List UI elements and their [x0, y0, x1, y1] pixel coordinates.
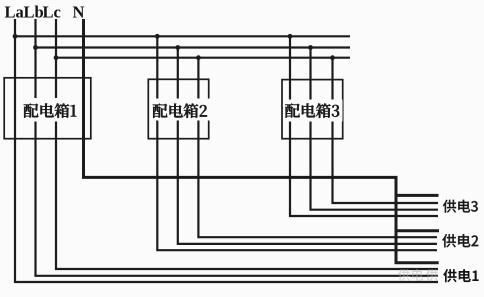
junction: bus C tap for box2	[196, 55, 201, 60]
svg-text:Lc: Lc	[43, 3, 61, 22]
svg-text:Lb: Lb	[24, 3, 44, 22]
wire: box2 tap phase A down to 供电2 run	[157, 36, 437, 250]
wire: box3 tap phase C down to 供电3 run	[333, 58, 439, 203]
distribution box 2 (配电箱2)	[148, 79, 208, 138]
bus: phase A horizontal bus from La	[15, 35, 350, 37]
wire: N branch (thick) to 供电2	[396, 229, 439, 232]
label 配电箱1 (white backing + glyphs)	[21, 98, 81, 122]
junction: Lc bus tap at Lc drop	[54, 55, 59, 60]
watermark (faint grey smudge)	[398, 269, 438, 281]
distribution box 3 (配电箱3)	[282, 80, 343, 139]
label 供电2	[442, 234, 478, 247]
wire: box3 tap phase B down to 供电3 run	[311, 48, 439, 210]
wire: box3 tap phase A down to 供电3 run	[290, 36, 438, 216]
svg-text:La: La	[5, 3, 24, 22]
wire: N branch (thick) to 供电3	[396, 194, 439, 197]
wire: box2 tap phase C down to 供电2 run	[198, 58, 437, 238]
junction: Lb bus tap at Lb drop	[33, 45, 38, 50]
wire: Lb drop through box1 and bottom run to 供电1 (phase B)	[36, 19, 439, 276]
wire: box2 tap phase B down to 供电2 run	[178, 48, 437, 244]
bus: phase C horizontal bus from Lc	[56, 57, 350, 59]
junction: bus B tap for box2	[175, 45, 180, 50]
distribution box 1 (配电箱1)	[4, 78, 91, 139]
junction: bus A tap for box3	[288, 34, 293, 39]
wire: La drop through box1 and bottom run to 供电1 (phase A)	[15, 19, 438, 282]
junction: La bus tap at La drop	[13, 34, 18, 39]
bus: phase B horizontal bus from Lb	[36, 46, 351, 48]
label 配电箱3 (white backing + glyphs)	[284, 100, 343, 122]
label 供电3	[443, 200, 478, 213]
wire: Lc drop through box1 and bottom run to 供电1 (phase C)	[56, 19, 438, 269]
label 配电箱2 (white backing + glyphs)	[151, 99, 210, 121]
junction: bus A tap for box2	[155, 34, 160, 39]
wire: N main run (thick) from label N through box1, across and down to 供电1	[84, 19, 439, 263]
label 供电1 (bold)	[443, 269, 478, 282]
svg-text:N: N	[73, 3, 85, 22]
junction: bus B tap for box3	[308, 45, 313, 50]
junction: bus C tap for box3	[330, 55, 335, 60]
